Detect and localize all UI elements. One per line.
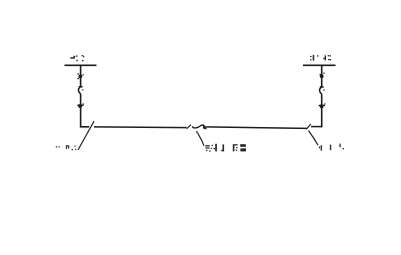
wire left vertical upper xyxy=(80,65,82,86)
net flag slash right xyxy=(306,124,311,129)
wire right vertical lower xyxy=(321,95,323,127)
bus wire segment A xyxy=(80,126,89,128)
junction blob bottom of R2 xyxy=(319,103,326,108)
bus wire segment D xyxy=(311,126,322,128)
resistor R2 dot xyxy=(323,90,324,91)
net flag slash left xyxy=(78,121,94,150)
resistor R2 squiggle xyxy=(320,86,324,95)
break slash middle xyxy=(187,125,191,129)
squiggle knot middle xyxy=(192,126,207,130)
power rail bar VCC right xyxy=(303,64,336,66)
junction dot middle xyxy=(196,131,198,133)
label VCC right xyxy=(310,55,331,61)
junction blob bottom of R1 xyxy=(77,103,84,108)
resistor R1 squiggle xyxy=(78,86,82,95)
junction blob top of R1 xyxy=(77,73,83,79)
bus wire segment C xyxy=(206,127,307,128)
leader line middle xyxy=(198,133,204,146)
net label middle (bus name) xyxy=(205,144,246,152)
net label right xyxy=(319,144,344,151)
wire left vertical lower xyxy=(80,95,82,127)
bus wire segment B xyxy=(94,126,187,129)
junction blob top of R2 xyxy=(320,73,325,79)
bus wire squiggle middle xyxy=(193,125,206,129)
leader line right xyxy=(308,131,318,146)
label VCC left xyxy=(70,55,84,61)
net label left xyxy=(56,145,77,150)
wire right vertical upper xyxy=(321,65,323,87)
resistor R1 dot xyxy=(82,89,83,90)
power rail bar VCC left xyxy=(65,64,97,66)
